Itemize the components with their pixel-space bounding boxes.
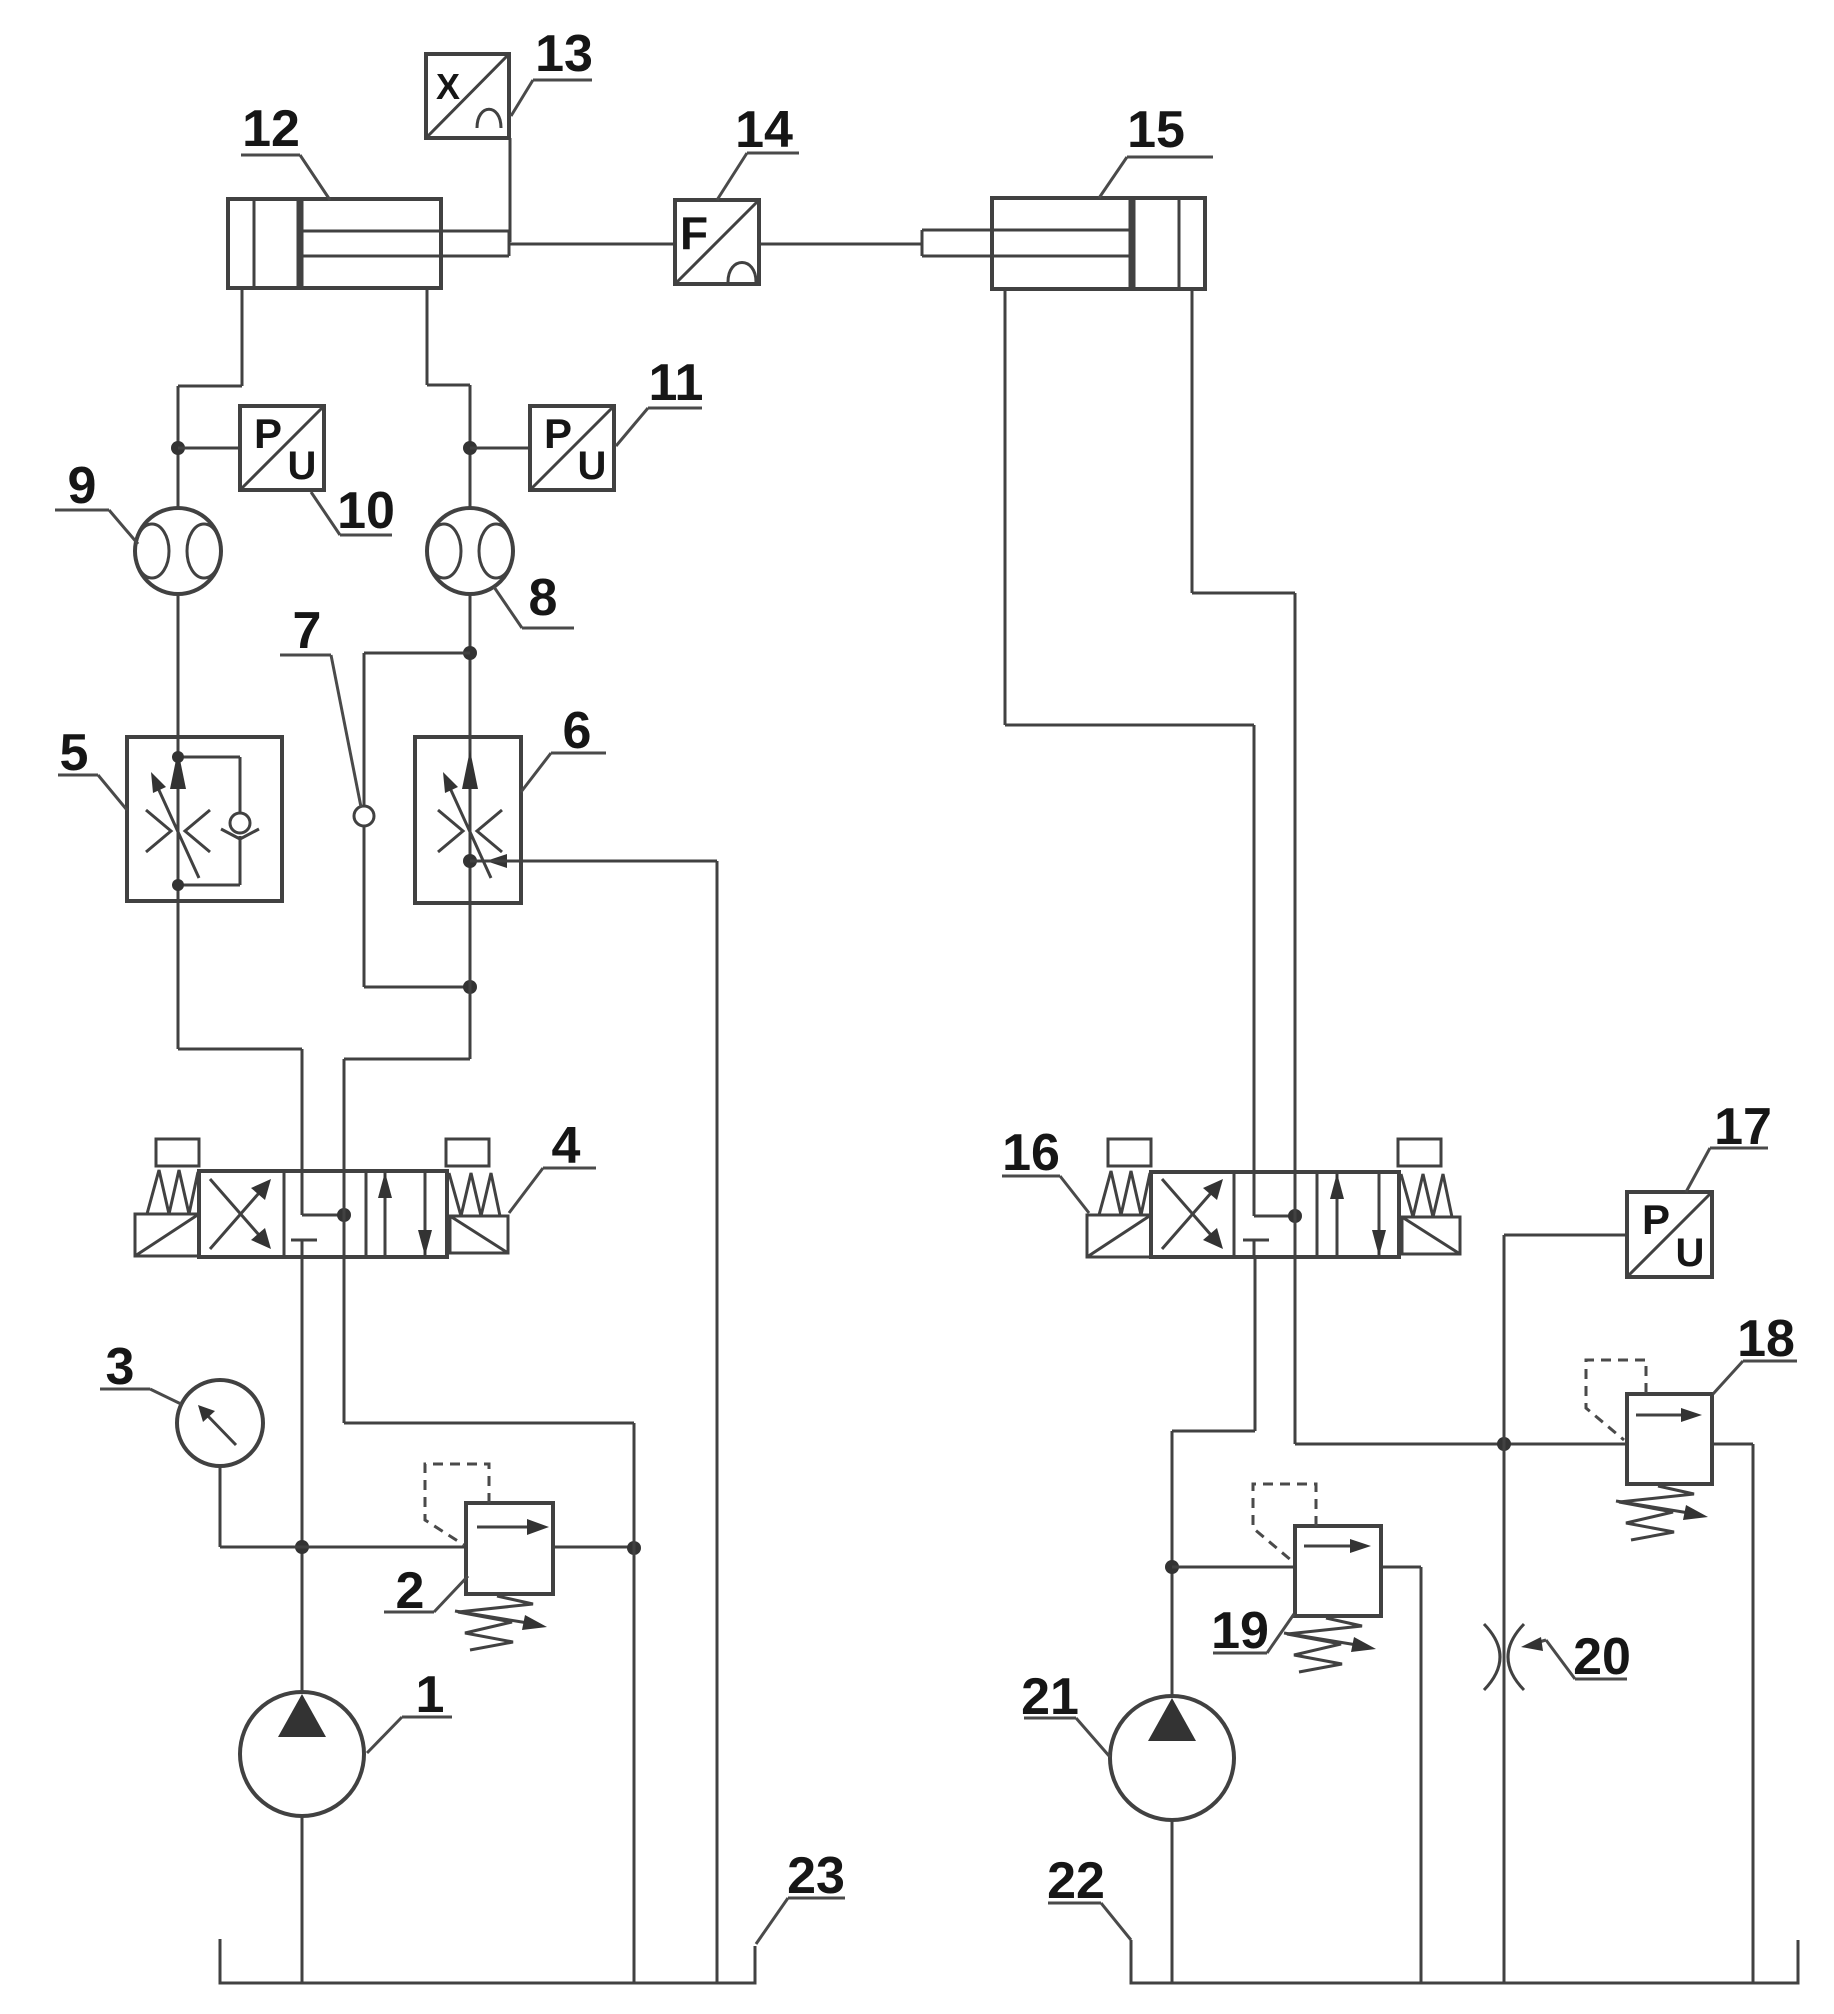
flow meter 8: [427, 508, 513, 594]
valve 4 left solenoid box: [135, 1214, 199, 1256]
node junction bypass top: [463, 646, 477, 660]
valve 4 left solenoid coil: [156, 1139, 199, 1166]
wire relief18 outlet: [1712, 1443, 1753, 1446]
svg-text:4: 4: [552, 1117, 581, 1175]
label 1: [367, 1666, 452, 1753]
wire valve4 port P down to pump 1: [301, 1257, 304, 1693]
relief 2 spring arrow: [455, 1611, 547, 1630]
relief 2 spring: [458, 1596, 533, 1650]
relief 19 spring: [1287, 1618, 1362, 1672]
label 21: [1021, 1668, 1110, 1757]
svg-text:1: 1: [416, 1666, 445, 1724]
wire jog right: [427, 384, 470, 387]
wire cyl12 right port down: [426, 288, 429, 385]
valve 16 right position parallel arrows: [1330, 1173, 1386, 1256]
throttle valve 20: [1484, 1624, 1524, 1690]
valve 16 right solenoid coil: [1398, 1139, 1441, 1166]
label 10: [311, 482, 395, 540]
wire relief19 outlet: [1381, 1566, 1421, 1569]
valve 4 left position crossed arrows: [210, 1179, 271, 1249]
wire pump 21 riser: [1171, 1431, 1174, 1697]
pump 21: [1110, 1696, 1234, 1820]
flow meter 9: [135, 508, 221, 594]
valve 4 centre position: [291, 1171, 351, 1257]
valve 4 right position parallel arrows: [378, 1172, 432, 1256]
label 11: [616, 354, 703, 446]
label 13: [511, 25, 593, 116]
valve 16 left solenoid box: [1087, 1215, 1151, 1257]
directional valve 16 body: [1151, 1172, 1399, 1257]
label 15: [1099, 101, 1213, 198]
wire down to valve4 port A: [301, 1049, 304, 1172]
node junction P/gauge/relief2: [295, 1540, 309, 1554]
node junction to P/U 11: [463, 441, 477, 455]
force sensor U14 (F box): [675, 200, 759, 284]
wire junction to P/U 11: [470, 447, 530, 450]
svg-text:U: U: [578, 444, 607, 488]
label 8: [494, 569, 574, 628]
svg-text:8: 8: [529, 569, 558, 627]
wire node7 down: [363, 826, 366, 987]
wire T to relief 18 inlet: [1295, 1443, 1627, 1446]
wire valve6 drain horizontal: [470, 860, 717, 863]
svg-text:9: 9: [68, 457, 97, 515]
label 22: [1047, 1852, 1131, 1940]
valve 16 left solenoid coil: [1108, 1139, 1151, 1166]
wire down to valve16 port A: [1253, 725, 1256, 1172]
wire valve16 port P down: [1254, 1257, 1257, 1431]
wire bypass bottom horizontal: [364, 986, 470, 989]
wire cyl15 right port down: [1191, 289, 1194, 593]
wire jog right to valve16 B: [1192, 592, 1295, 595]
cylinder 15: [922, 198, 1205, 289]
wire relief19 drain to tank 22: [1420, 1567, 1423, 1983]
pressure relief valve 19: [1295, 1526, 1381, 1616]
pressure relief valve 18: [1627, 1394, 1712, 1484]
label 18: [1713, 1310, 1797, 1394]
svg-text:19: 19: [1211, 1602, 1269, 1660]
label 4: [509, 1117, 596, 1213]
cylinder 12: [228, 199, 509, 288]
node junction relief2 drain: [627, 1541, 641, 1555]
flow control valve 6: [415, 737, 521, 903]
svg-text:P: P: [544, 410, 572, 457]
wire jog to valve4 port A: [178, 1048, 302, 1051]
node 7 (measuring point): [354, 806, 374, 826]
wire rod12 to force sensor: [509, 243, 675, 246]
wire meter9 to valve5: [177, 594, 180, 738]
valve 16 left position crossed arrows: [1162, 1179, 1223, 1249]
wire relief18 drain to tank 22: [1752, 1444, 1755, 1983]
relief 18 pilot dashed: [1586, 1360, 1646, 1440]
wire jog right to valve16 A: [1005, 724, 1254, 727]
label 14: [717, 101, 799, 200]
pressure sensor 10 (P/U box): [240, 406, 324, 490]
svg-text:18: 18: [1737, 1310, 1795, 1368]
wire up to P/U 17: [1503, 1235, 1506, 1444]
label 2: [384, 1562, 468, 1620]
directional valve 4 body: [199, 1171, 447, 1257]
svg-text:11: 11: [649, 354, 704, 412]
wire throttle line to tank 22: [1503, 1444, 1506, 1983]
relief 18 spring: [1619, 1486, 1694, 1540]
svg-text:20: 20: [1573, 1628, 1631, 1686]
valve 4 right spring: [449, 1173, 500, 1216]
wire jog left to pump line: [1172, 1430, 1255, 1433]
valve 4 right solenoid box: [450, 1216, 508, 1253]
wire junction to P/U 10: [178, 447, 240, 450]
wire cyl15 left port down: [1004, 289, 1007, 725]
valve 4 right solenoid coil: [446, 1139, 489, 1166]
svg-text:23: 23: [787, 1847, 845, 1905]
svg-text:13: 13: [535, 25, 593, 83]
wire T drain to tank 23: [633, 1423, 636, 1983]
svg-text:12: 12: [242, 100, 300, 158]
label 16: [1002, 1124, 1089, 1213]
wire relief2 outlet: [553, 1546, 634, 1549]
label 3: [100, 1338, 181, 1404]
label 17: [1686, 1098, 1772, 1192]
wire valve16 port T down: [1294, 1257, 1297, 1444]
tank 22: [1131, 1940, 1798, 1983]
svg-text:7: 7: [293, 602, 322, 660]
svg-text:U: U: [288, 444, 317, 488]
wire sensor13 to rod: [509, 138, 512, 242]
svg-text:6: 6: [563, 702, 592, 760]
svg-text:P: P: [1642, 1196, 1670, 1243]
label 5: [58, 724, 127, 810]
pressure relief valve 2: [466, 1503, 553, 1594]
wire down to flow meter 9: [177, 386, 180, 509]
position sensor U13 (X box): [426, 54, 509, 138]
svg-text:16: 16: [1002, 1124, 1060, 1182]
valve 16 left spring: [1099, 1171, 1150, 1215]
svg-text:10: 10: [337, 482, 395, 540]
label 19: [1211, 1602, 1294, 1660]
wire jog to valve4 port B: [344, 1058, 470, 1061]
node junction to P/U 10: [171, 441, 185, 455]
flow control valve 5 (with check valve): [127, 737, 282, 901]
label 7: [280, 602, 361, 807]
wire valve6 down: [469, 903, 472, 1059]
valve 4 left spring: [147, 1170, 198, 1214]
label 12: [241, 100, 330, 200]
wire gauge to relief 2 inlet: [220, 1546, 466, 1549]
node junction 18/17/20: [1497, 1437, 1511, 1451]
valve 16 right spring: [1401, 1174, 1452, 1217]
wire jog left: [178, 385, 242, 388]
svg-text:15: 15: [1127, 101, 1185, 159]
wire bypass top horizontal: [364, 652, 470, 655]
label 20: [1521, 1628, 1631, 1686]
label 6: [521, 702, 606, 792]
wire force sensor to rod15: [759, 243, 922, 246]
relief 19 spring arrow: [1284, 1633, 1376, 1652]
label 9: [55, 457, 138, 544]
svg-text:5: 5: [60, 724, 89, 782]
svg-text:X: X: [436, 66, 460, 107]
wire bypass down to node 7: [363, 653, 366, 806]
relief 2 pilot dashed: [425, 1464, 489, 1545]
node junction pump21/relief19: [1165, 1560, 1179, 1574]
wire down to valve4 port B: [343, 1059, 346, 1172]
wire pump21 to tank 22: [1171, 1820, 1174, 1983]
pressure gauge 3: [177, 1380, 263, 1466]
wire drain down to tank 23: [716, 861, 719, 1983]
relief 18 spring arrow: [1616, 1501, 1708, 1520]
wire down to valve16 port B: [1294, 593, 1297, 1172]
wire to P/U 17: [1504, 1234, 1627, 1237]
label 23: [756, 1847, 845, 1944]
node junction bypass bottom: [463, 980, 477, 994]
svg-text:F: F: [680, 207, 708, 259]
valve 16 right solenoid box: [1402, 1217, 1460, 1254]
wire T jog right: [344, 1422, 634, 1425]
wire pump1 to tank 23: [301, 1816, 304, 1983]
wire valve4 port T down: [343, 1257, 346, 1423]
valve 16 centre position: [1243, 1172, 1302, 1257]
pressure sensor 17 (P/U box): [1627, 1192, 1712, 1277]
pressure sensor 11 (P/U box): [530, 406, 614, 490]
svg-text:14: 14: [735, 101, 793, 159]
relief 19 pilot dashed: [1253, 1484, 1316, 1561]
svg-text:U: U: [1676, 1231, 1705, 1275]
wire valve5 down: [177, 901, 180, 1049]
wire gauge stem: [219, 1466, 222, 1547]
tank 23: [220, 1939, 755, 1983]
wire cyl12 left port down: [241, 288, 244, 386]
pump 1: [240, 1692, 364, 1816]
svg-text:P: P: [254, 410, 282, 457]
wire meter8 to valve6: [469, 594, 472, 738]
svg-text:3: 3: [106, 1338, 135, 1396]
svg-text:22: 22: [1047, 1852, 1105, 1910]
wire down to flow meter 8: [469, 385, 472, 509]
wire to relief 19 inlet: [1172, 1566, 1295, 1569]
